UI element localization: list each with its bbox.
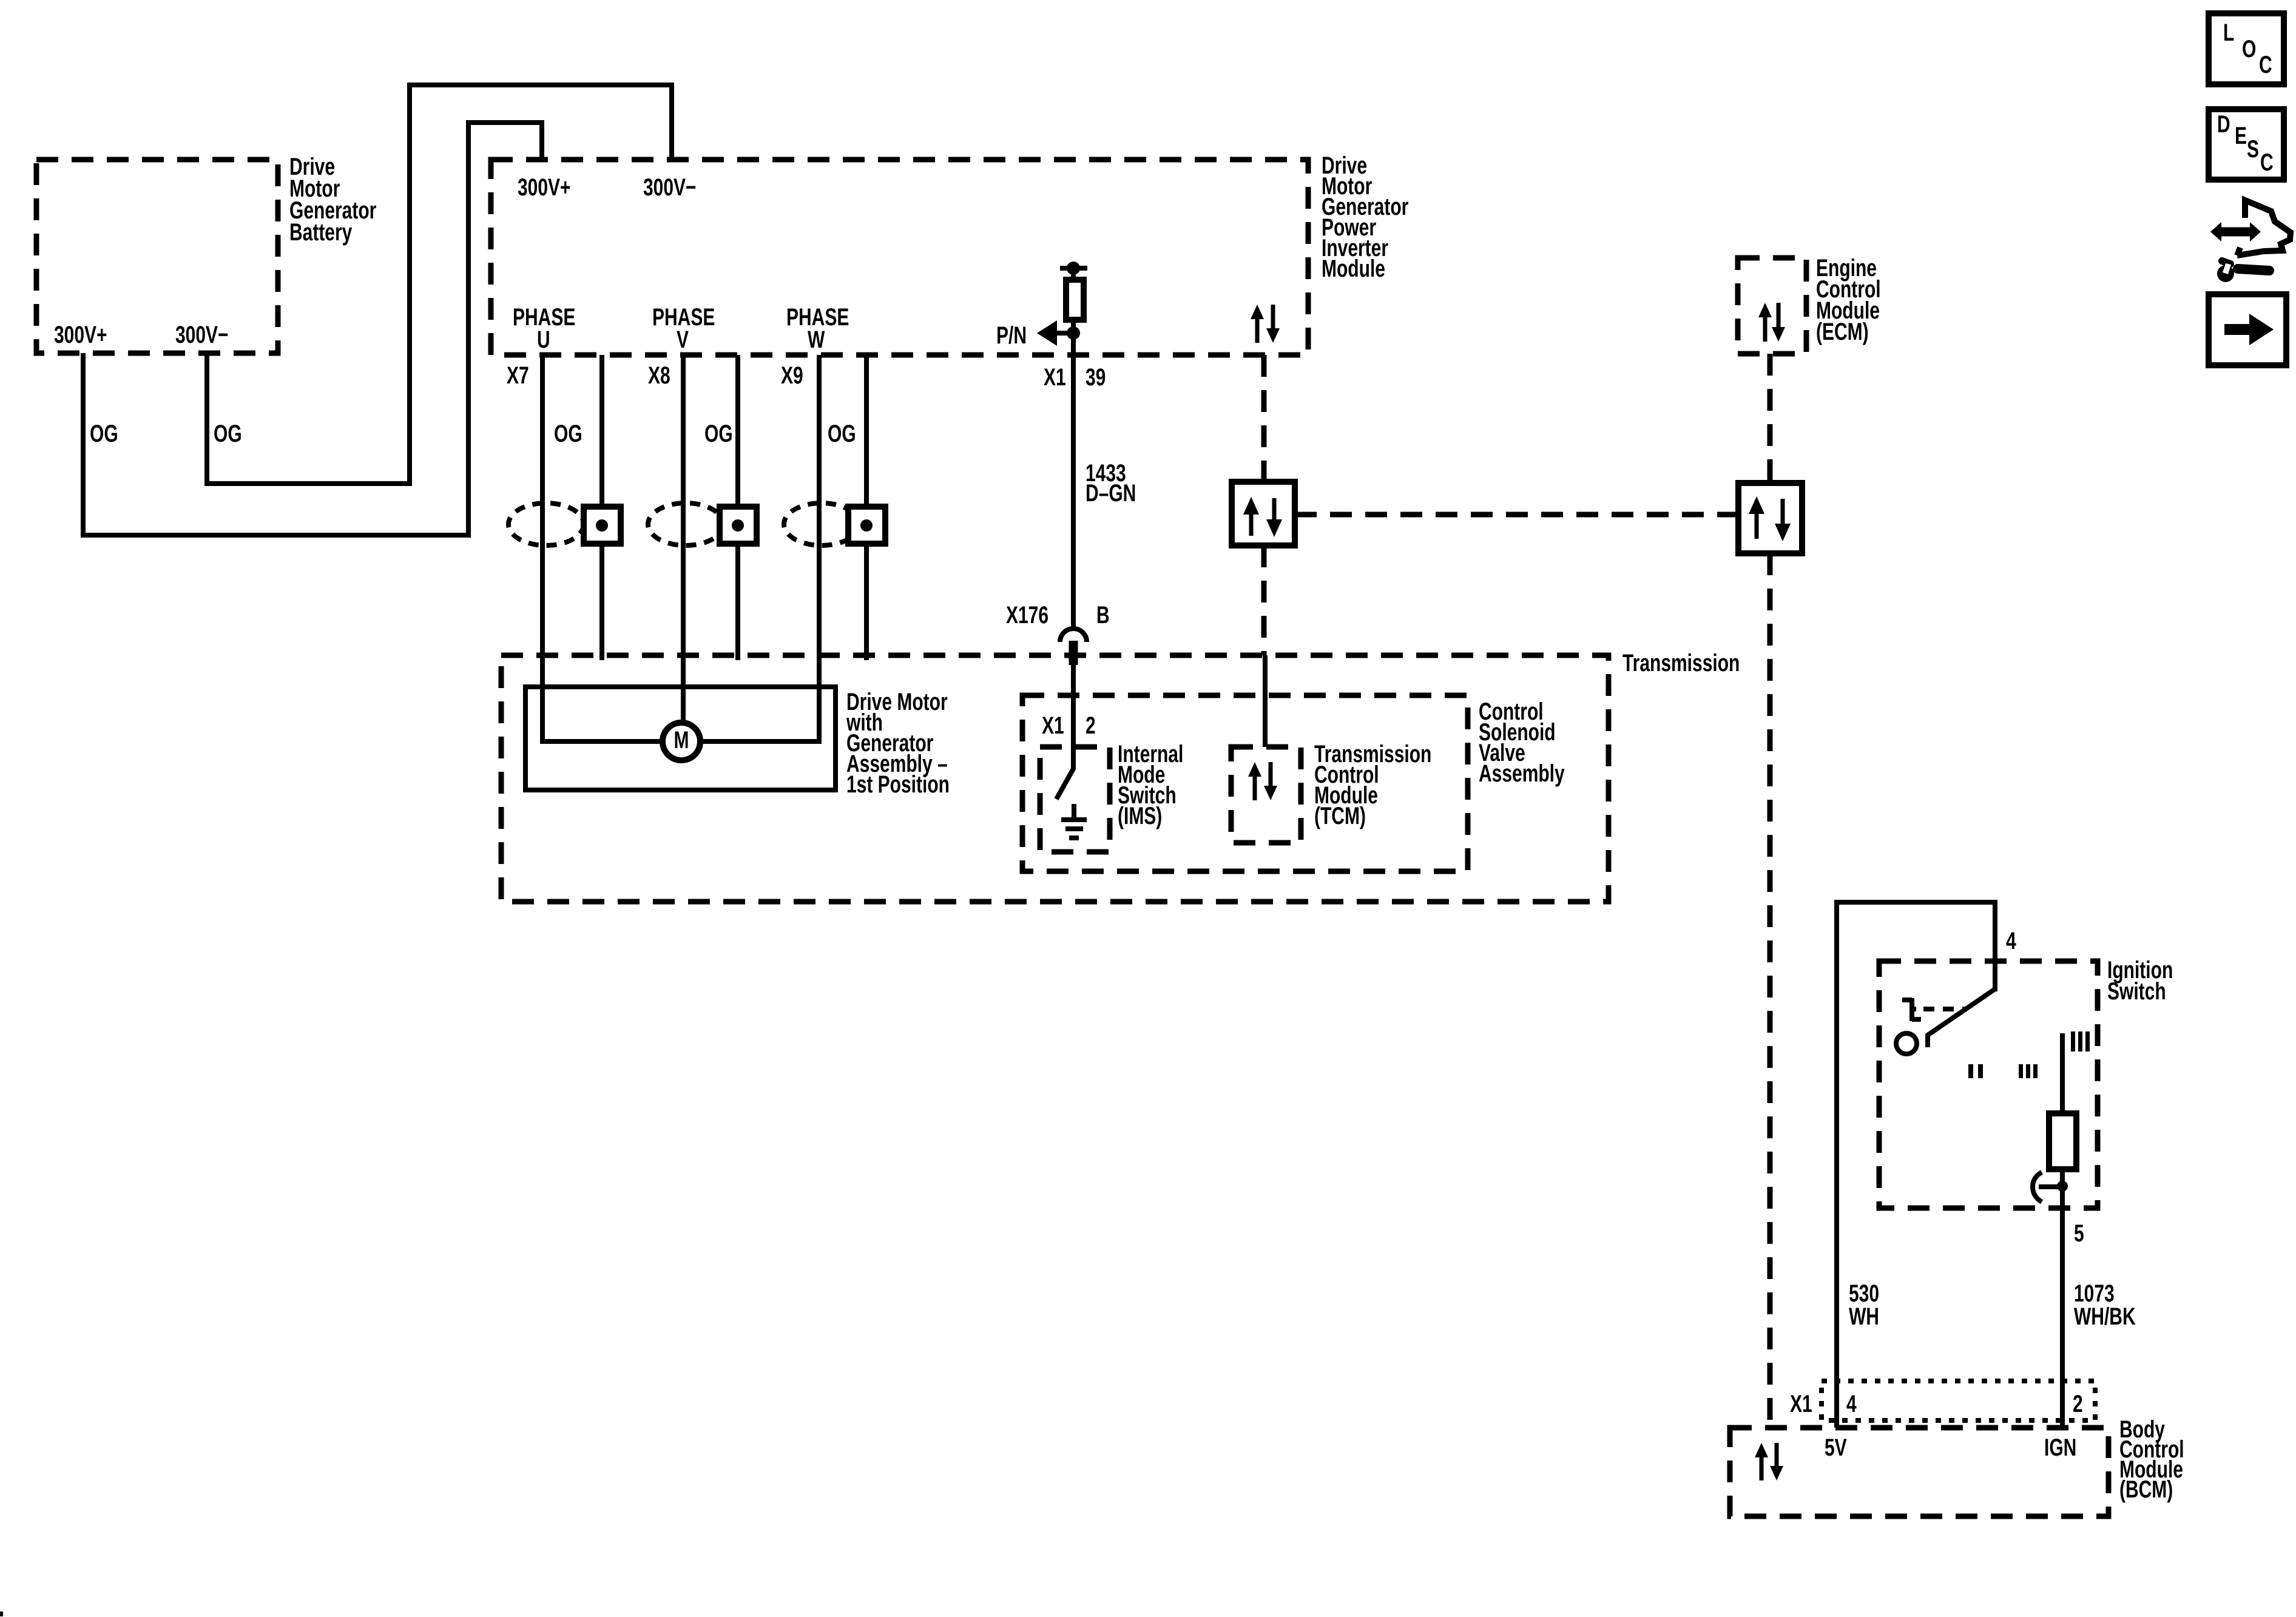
svg-text:(ECM): (ECM): [1816, 319, 1869, 345]
svg-text:OG: OG: [554, 420, 582, 447]
ignition key symbol: [1902, 998, 1921, 1021]
svg-text:E: E: [2235, 123, 2247, 149]
resistor pull-up inside PIM: [1060, 266, 1087, 271]
serial data dashed wire PIM to data link connector: [1261, 355, 1267, 482]
svg-text:Transmission: Transmission: [1622, 650, 1740, 677]
TCM label: [1314, 741, 1431, 829]
IMS ground: [1072, 804, 1076, 819]
data link connector square (left): [1232, 482, 1295, 545]
shield connector square phase U: [584, 507, 621, 544]
phase U drain wire: [599, 355, 604, 660]
shield connector square phase W: [848, 507, 885, 544]
phase U wire: [542, 355, 663, 741]
ignition switch blade: [1928, 989, 1995, 1047]
svg-text:X1: X1: [1790, 1391, 1812, 1417]
wire: battery 300V- to PIM 300V-: [207, 85, 672, 484]
IMS box: [1040, 747, 1110, 852]
icon DESC box: [2209, 109, 2284, 180]
run contact wire: [2060, 1033, 2065, 1113]
icon arrow glyph: [2224, 314, 2274, 345]
junction node below fuse: [2057, 1181, 2068, 1192]
svg-text:D–GN: D–GN: [1086, 480, 1136, 507]
phase W drain wire: [864, 355, 869, 660]
serial data bus horizontal: [1295, 512, 1738, 518]
ignition fuse: [2049, 1113, 2076, 1169]
ignition switch box: [1879, 961, 2098, 1208]
svg-text:Switch: Switch: [2107, 978, 2166, 1005]
fuse block hook symbol: [2039, 1184, 2062, 1189]
svg-text:X7: X7: [507, 362, 529, 389]
svg-text:WH: WH: [1849, 1303, 1879, 1330]
svg-text:39: 39: [1086, 364, 1106, 391]
svg-text:1st Position: 1st Position: [846, 771, 950, 798]
svg-text:4: 4: [1846, 1391, 1857, 1417]
ignition switch pivot circle: [1896, 1033, 1917, 1054]
ECM label: [1816, 255, 1881, 345]
wire BCM 5V to ignition pin 4: [1837, 902, 1995, 1428]
shield ellipse phase U: [508, 503, 584, 545]
BCM label: [2119, 1416, 2184, 1503]
CSVA label: [1479, 698, 1565, 787]
svg-text:P/N: P/N: [996, 322, 1027, 349]
TCM serial data symbol: [1248, 762, 1277, 800]
position mark II: [1968, 1064, 1983, 1078]
svg-text:D: D: [2217, 111, 2230, 138]
icon wrench/adjust: [2210, 200, 2291, 282]
position mark III (at run contact): [2071, 1031, 2090, 1052]
svg-text:IGN: IGN: [2044, 1434, 2076, 1461]
svg-text:B: B: [1096, 602, 1110, 629]
svg-text:Battery: Battery: [289, 219, 353, 246]
svg-text:(IMS): (IMS): [1118, 803, 1162, 829]
svg-text:2: 2: [2073, 1391, 2083, 1417]
svg-text:L: L: [2223, 19, 2234, 46]
wire serial data to TCM: [1263, 655, 1268, 747]
motor M circle: [663, 723, 700, 760]
svg-text:W: W: [808, 326, 825, 353]
shield ellipse phase V: [648, 503, 723, 545]
battery box label: [289, 154, 377, 246]
transmission box: [501, 655, 1609, 902]
svg-text:S: S: [2247, 136, 2259, 163]
TCM box: [1231, 747, 1301, 843]
svg-text:OG: OG: [90, 420, 118, 447]
svg-text:OG: OG: [214, 420, 242, 447]
data link connector square (right): [1738, 483, 1802, 553]
drive motor rectangle: [525, 687, 836, 790]
svg-text:OG: OG: [828, 420, 856, 447]
svg-text:300V−: 300V−: [175, 322, 229, 348]
motor label: [846, 689, 950, 798]
data link connector arrows (right): [1749, 496, 1791, 541]
svg-text:U: U: [537, 326, 550, 353]
ECM serial data symbol: [1758, 303, 1785, 342]
svg-text:X176: X176: [1006, 602, 1048, 629]
icon LOC box: [2209, 13, 2284, 84]
BCM serial data symbol: [1755, 1443, 1783, 1480]
shield ellipse phase W: [784, 503, 859, 545]
PIM serial data symbol (up/down arrows): [1251, 305, 1280, 343]
serial data dashed wire down to BCM: [1768, 553, 1773, 1428]
svg-text:O: O: [2242, 36, 2256, 62]
IMS switch blade: [1056, 748, 1073, 799]
position mark III (middle): [2019, 1064, 2038, 1078]
ECM box: [1738, 258, 1806, 354]
BCM X1 connector dotted box: [1822, 1381, 2095, 1420]
phase W wire: [700, 355, 819, 741]
svg-text:M: M: [674, 727, 689, 754]
svg-text:Module: Module: [1322, 255, 1385, 282]
phase V drain wire: [735, 355, 740, 660]
icon DESC letters: [2217, 111, 2274, 176]
node: junction P/N: [1067, 326, 1080, 340]
ignition switch label: [2107, 957, 2173, 1005]
icon arrow box: [2209, 294, 2286, 365]
data link connector arrows (left): [1243, 497, 1282, 537]
svg-text:C: C: [2259, 52, 2272, 78]
BCM box: [1730, 1428, 2109, 1516]
key linkage dashed: [1923, 1007, 1967, 1011]
serial data dashed wire ECM down: [1768, 354, 1773, 483]
page corner dot: [0, 1612, 3, 1616]
svg-text:WH/BK: WH/BK: [2074, 1303, 2136, 1330]
shield connector square phase V: [720, 507, 757, 544]
svg-text:Assembly: Assembly: [1479, 760, 1565, 787]
PIM box: Drive Motor Generator Power Inverter Module: [491, 160, 1308, 355]
svg-text:4: 4: [2006, 928, 2016, 954]
svg-text:C: C: [2260, 149, 2274, 176]
svg-text:(TCM): (TCM): [1314, 803, 1366, 829]
svg-text:X8: X8: [648, 362, 670, 389]
wire: battery 300V+ to PIM 300V+: [83, 123, 542, 535]
svg-text:(BCM): (BCM): [2119, 1476, 2173, 1503]
svg-text:V: V: [677, 326, 689, 353]
serial data dashed wire square down to transmission: [1261, 545, 1267, 655]
svg-text:OG: OG: [704, 420, 733, 447]
PIM label: [1322, 152, 1409, 282]
IMS label: [1118, 741, 1183, 829]
wire into IMS: [1071, 665, 1076, 748]
svg-text:300V−: 300V−: [643, 174, 697, 201]
svg-text:X1: X1: [1044, 364, 1066, 391]
svg-text:300V+: 300V+: [518, 174, 571, 201]
svg-text:5V: 5V: [1825, 1434, 1847, 1461]
svg-text:5: 5: [2074, 1220, 2084, 1247]
svg-text:X1: X1: [1042, 712, 1064, 739]
phase V wire: [681, 355, 686, 723]
P/N arrow: [1057, 331, 1073, 336]
control solenoid valve assembly box: [1022, 695, 1468, 871]
svg-text:2: 2: [1086, 712, 1096, 739]
battery box: Drive Motor Generator Battery: [36, 160, 278, 353]
svg-text:300V+: 300V+: [54, 322, 107, 348]
wire 1433 D-GN from P/N node down: [1071, 356, 1076, 630]
svg-text:X9: X9: [781, 362, 803, 389]
icon LOC letters: [2223, 19, 2272, 78]
connector X176 (half circle): [1060, 629, 1087, 642]
